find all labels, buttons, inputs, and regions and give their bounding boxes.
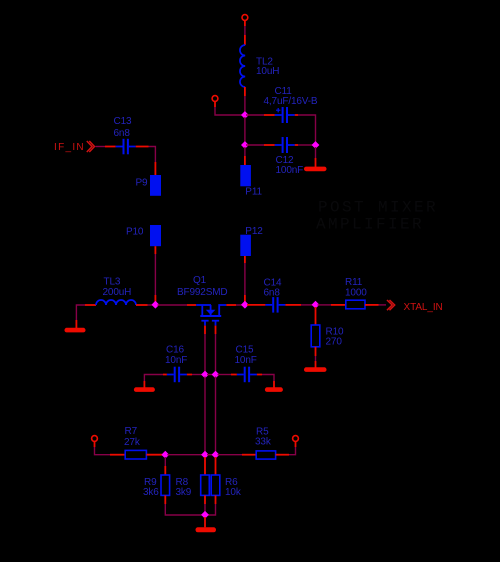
svg-text:P10: P10 (126, 227, 144, 238)
label Q1 (177, 275, 228, 298)
label C15 (235, 345, 257, 367)
label R10 (326, 327, 344, 348)
wire R6 bottom to node M (207, 495, 216, 515)
svg-text:10nF: 10nF (165, 355, 187, 366)
wire AGC terminal to R7 (95, 447, 126, 455)
resistor R6 (211, 475, 220, 495)
connector chevron IF_IN (87, 141, 95, 152)
label R6 (225, 477, 242, 498)
label C12 (276, 155, 304, 176)
wire Q1 drain to node F (226, 304, 242, 306)
svg-text:R11: R11 (345, 277, 363, 288)
svg-text:IF_IN: IF_IN (54, 142, 85, 153)
svg-text:6n8: 6n8 (114, 128, 131, 139)
svg-text:C16: C16 (166, 345, 184, 356)
wire C11 to right corner (295, 115, 316, 143)
wire node M to ground (204, 517, 206, 527)
label TL3 (103, 277, 132, 299)
inductor TL3 (96, 300, 136, 305)
resistor R9 (161, 475, 170, 495)
wire node B to C11 (246, 114, 275, 116)
label TL2 (256, 57, 279, 78)
label C16 (165, 345, 187, 367)
wire C12 to node D (295, 144, 313, 146)
capacitor C12 (275, 137, 295, 153)
wire node J to node K (167, 454, 203, 456)
label C13 (114, 116, 132, 139)
ground GND6 (196, 527, 217, 532)
svg-text:33k: 33k (255, 437, 272, 448)
wire node C to C12 (246, 144, 275, 146)
resistor R7 (125, 450, 146, 459)
wire node J to R9 (164, 457, 166, 475)
node I junction gate2 (212, 371, 220, 379)
label AMPLIFIER (faint) (316, 216, 424, 234)
wire node I to C15 (218, 374, 237, 376)
wire TL3 to node E (136, 304, 153, 306)
wire C16 left ground branch (144, 375, 163, 388)
node AGC terminal left (92, 436, 98, 442)
capacitor C13 (116, 139, 136, 155)
wire Q1 gate1 down (204, 326, 206, 373)
wire aux terminal pin stub (214, 102, 216, 107)
wire C15 right ground branch (257, 375, 274, 388)
wire Q1 gate2 down (215, 326, 217, 373)
wire R8 bottom to node M (204, 495, 206, 512)
wire node L to R6 (215, 457, 217, 475)
wire node H to node I (207, 374, 214, 376)
ground GND2 (65, 328, 86, 333)
label P9 (136, 178, 149, 189)
wire C16 left pin stub (163, 374, 167, 376)
svg-text:BF992SMD: BF992SMD (177, 287, 228, 298)
svg-text:Q1: Q1 (193, 275, 207, 286)
svg-text:POST MIXER: POST MIXER (318, 199, 438, 217)
wire R11 to XTAL_IN (365, 304, 386, 306)
resistor R11 (346, 300, 365, 309)
label C14 (264, 278, 282, 299)
svg-text:200uH: 200uH (103, 287, 132, 298)
wire C16 to node H (187, 374, 203, 376)
wire TL3 left pin stub (85, 304, 96, 306)
wire aux terminal to node B (215, 107, 243, 115)
ground GND5 (265, 387, 283, 392)
capacitor C11 (275, 107, 295, 123)
svg-text:TL3: TL3 (104, 277, 121, 288)
node K junction gate1 row (201, 451, 209, 459)
inductor TL2 (240, 45, 245, 87)
wire VCC to TL2 (244, 26, 246, 45)
svg-text:6n8: 6n8 (264, 288, 281, 299)
wire node E to Q1 source (158, 304, 197, 306)
node B junction (241, 111, 249, 119)
potentiometer P10 (150, 225, 161, 246)
label C11 (264, 86, 318, 107)
svg-text:XTAL_IN: XTAL_IN (404, 302, 443, 313)
node D junction (312, 141, 320, 149)
ground GND4 (134, 387, 155, 392)
node F junction (241, 301, 249, 309)
svg-text:P11: P11 (245, 187, 262, 198)
wire node K to node L (207, 454, 214, 456)
node VCC terminal top (242, 15, 248, 21)
node M junction (201, 511, 209, 519)
wire VCC terminal pin stub (244, 21, 246, 26)
wire gate1 node H down (204, 377, 206, 453)
wire node L to R5 (218, 454, 257, 456)
wire node D to ground (315, 147, 317, 167)
capacitor C14 (265, 297, 285, 313)
wire C14 to node G (285, 304, 313, 306)
resistor R10 (311, 325, 320, 347)
wire AGC terminal stub (94, 442, 96, 447)
connector chevron XTAL_IN (387, 300, 395, 310)
potentiometer P9 (150, 175, 161, 196)
wire R10 to ground (315, 347, 317, 368)
label P11 (245, 187, 262, 198)
wire TL2 bottom pin stub (244, 87, 246, 96)
node J junction (161, 451, 169, 459)
svg-text:AMPLIFIER: AMPLIFIER (316, 216, 424, 234)
node aux terminal left (212, 96, 218, 102)
svg-text:P9: P9 (136, 178, 149, 189)
svg-text:10k: 10k (225, 487, 242, 498)
wire node K to R8 (204, 457, 206, 475)
wire TL3 ground branch (76, 305, 85, 328)
label POST MIXER (faint) (318, 199, 438, 217)
svg-text:3k9: 3k9 (176, 487, 192, 498)
wire IF_IN to C13 (96, 146, 116, 148)
node H junction gate1 (201, 371, 209, 379)
wire P12 to node F (244, 256, 246, 303)
wire P10 to node E (154, 246, 156, 302)
svg-text:3k6: 3k6 (143, 487, 159, 498)
label R5 (255, 427, 272, 448)
wire node G to R11 (318, 304, 346, 306)
wire TL2 to node B (244, 96, 246, 114)
wire node C to P11 (244, 147, 246, 166)
label XTAL_IN (404, 302, 443, 313)
wire node F to C14 (247, 304, 265, 306)
label R11 (345, 277, 367, 299)
svg-text:C15: C15 (236, 345, 254, 356)
label P10 (126, 227, 144, 238)
capacitor C16 (167, 367, 187, 383)
potentiometer P11 (240, 165, 251, 186)
wire R9 bottom to node M (165, 495, 203, 515)
capacitor C15 (237, 367, 257, 383)
ground GND3 (304, 367, 327, 372)
svg-text:1000: 1000 (345, 288, 367, 299)
svg-text:10uH: 10uH (256, 66, 279, 77)
resistor R8 (201, 475, 210, 495)
node C junction (241, 141, 249, 149)
svg-text:4,7uF/16V-B: 4,7uF/16V-B (264, 96, 318, 107)
label R8 (176, 477, 192, 498)
label R9 (143, 477, 159, 498)
node E junction (152, 301, 160, 309)
label IF_IN (54, 142, 85, 153)
node L junction gate2 row (212, 451, 220, 459)
svg-text:R7: R7 (125, 426, 138, 437)
svg-text:C13: C13 (114, 116, 132, 127)
ground GND1 (304, 167, 327, 172)
resistor R5 (256, 451, 275, 459)
svg-text:270: 270 (326, 337, 343, 348)
wire R5 to terminal right (276, 442, 296, 455)
wire R7 to node J (146, 454, 163, 456)
label R7 (124, 426, 141, 448)
label P12 (245, 226, 263, 237)
wire node G to R10 (315, 307, 317, 325)
svg-text:10nF: 10nF (235, 355, 257, 366)
wire node B to node C (244, 117, 246, 143)
wire C13 to corner down to P9 (136, 147, 156, 176)
transistor Q1 dual-gate MOSFET (196, 305, 226, 326)
node terminal right (293, 436, 299, 442)
svg-text:27k: 27k (124, 437, 141, 448)
potentiometer P12 (240, 235, 251, 256)
node G junction (312, 301, 320, 309)
svg-text:100nF: 100nF (276, 165, 304, 176)
wire gate2 node I down (215, 377, 217, 453)
